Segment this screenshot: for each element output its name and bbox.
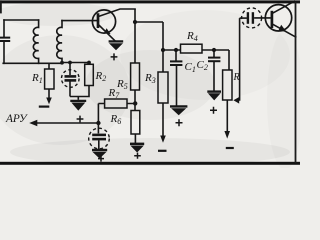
minus bar under R3 [158,150,167,152]
paper background [0,0,300,168]
node dot collector branch [133,20,137,24]
plus sign under C2 ground [210,107,217,114]
wire: branch y=22 to x=163 [135,21,163,23]
plus sign under C4 ground [98,156,104,162]
capacitor C2 [208,50,220,91]
AGC arrowhead [29,120,37,126]
transistor T1 emitter arrowhead [104,28,111,34]
node dot bus-R3 [161,48,165,52]
resistor R5 [131,63,140,90]
coil L1 [33,20,38,63]
node dot C3 top [68,61,72,65]
AGC line (АРУ) [37,122,99,124]
node dot C1 tap [174,48,178,52]
resistor R1 [45,63,54,99]
plus sign under R6 ground [134,153,141,159]
transistor T2 emitter arrowhead [278,25,286,32]
transistor T1 emitter [99,25,115,41]
wire: base wire to T1 [62,20,97,22]
capacitor C4 (circled electrolytic, AGC) [89,104,110,150]
wire: tank left vertical upper [3,20,5,36]
transistor T1 base bar [97,15,100,27]
wire: R6 to ground [134,134,136,143]
wire: tank top horizontal [4,19,39,21]
top border line [0,0,300,3]
tuning capacitor plates [0,38,9,41]
ground under C1 [170,106,187,114]
svg-text:АРУ: АРУ [5,113,28,125]
supply arrow under R3 [160,136,166,143]
wire: supply bus y=50 left segment [163,49,181,51]
ground under C3 [70,97,86,110]
node dot L2 bottom [60,61,64,65]
potentiometer R8 [223,70,232,132]
wire: bottom bus y=62.5 [3,62,89,65]
capacitor C3 (circled electrolytic) [62,63,89,97]
transistor T2 emitter [273,24,297,37]
transistor T2 base bar [271,11,274,28]
supply arrow under R1 [46,98,52,105]
ground under C2 [207,92,221,100]
transistor T1 collector [99,9,135,16]
capacitor C5 (circled coupling) [240,8,271,28]
resistor R4 [181,44,203,53]
resistor R3 [158,72,168,136]
wire: vertical x=163 down to R3 [162,22,164,72]
resistor R6 [131,111,140,135]
wiper arrowhead [233,97,239,104]
coil L2 [57,21,62,63]
capacitor C1 [170,50,182,106]
plus sign under C3 ground [77,116,84,123]
ground under C4 [92,150,107,158]
wire: collector vertical x=135 [134,9,136,63]
wiper wire from C5 to R8 [237,18,240,100]
transistor T2 circle [265,5,291,31]
wire: supply bus y=50 right segment [202,49,229,51]
resistor R7 [98,99,135,108]
wire: tank left vertical lower [3,42,5,63]
transistor T1 circle [92,10,115,33]
plus sign under C1 ground [176,119,183,126]
ground under T1 emitter [109,41,124,49]
minus bar under R1 [39,105,50,107]
wire: R2 bottom to ground [70,86,89,97]
bottom border line [0,162,300,165]
right border line [295,2,297,163]
supply arrow under R8 [224,131,230,139]
minus bar under R8 [226,147,234,149]
node dot R2 top [87,61,91,65]
transistor T2 collector [273,1,296,13]
node dot AGC junction [96,121,100,125]
wire: R5 to R6 [134,90,136,111]
resistor R2 [85,63,94,86]
wire: bus corner down to R8 [228,50,230,70]
ground under R6 [130,144,144,152]
left border stub [0,0,2,13]
node dot C2 tap [212,48,216,52]
node dot R7 junction [133,101,137,105]
plus sign under T1 ground [111,53,118,60]
svg-text:R: R [233,72,240,83]
